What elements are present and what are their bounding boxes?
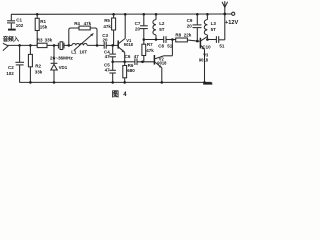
diode VD1 varactor	[51, 44, 68, 84]
svg-text:47: 47	[134, 54, 140, 59]
wire top +12V rail	[11, 13, 232, 15]
capacitor C2	[6, 44, 24, 82]
capacitor C3 (series)	[102, 33, 118, 49]
node +12V terminal	[225, 12, 238, 26]
svg-text:15k: 15k	[40, 25, 48, 30]
svg-text:图: 图	[112, 89, 119, 98]
svg-text:C10: C10	[202, 45, 211, 50]
svg-text:9018: 9018	[199, 58, 209, 63]
capacitor C7	[135, 13, 148, 40]
wire emitter tap	[113, 61, 125, 63]
svg-text:10T: 10T	[79, 50, 87, 55]
capacitor C5	[104, 61, 116, 84]
svg-text:C9: C9	[187, 18, 193, 23]
resistor R3	[37, 37, 59, 47]
svg-text:20: 20	[103, 38, 109, 43]
resistor R7	[141, 38, 154, 63]
svg-text:R7: R7	[147, 42, 153, 47]
svg-text:+12V: +12V	[225, 20, 238, 26]
caption 图4	[112, 89, 127, 98]
resistor R5	[103, 13, 115, 47]
svg-text:9018: 9018	[157, 60, 167, 65]
capacitor C9	[187, 13, 202, 42]
svg-text:R1: R1	[40, 19, 46, 24]
wire V3 collector node	[206, 38, 216, 41]
inductor L2 5T	[153, 13, 165, 41]
inductor L3 5T	[204, 13, 216, 40]
svg-text:47k: 47k	[84, 21, 92, 26]
svg-text:5T: 5T	[159, 27, 165, 32]
resistor R8	[175, 33, 199, 42]
svg-text:C7: C7	[135, 21, 141, 26]
wire collector tank line	[144, 39, 164, 41]
svg-text:C2: C2	[8, 65, 14, 70]
svg-text:9018: 9018	[124, 42, 134, 47]
inductor L1 10T adjustable	[69, 33, 104, 54]
antenna	[222, 1, 228, 40]
svg-text:C6: C6	[125, 54, 131, 59]
node 音频入 audio input terminal	[3, 35, 20, 50]
capacitor C6 (series)	[125, 54, 155, 65]
svg-text:102: 102	[6, 71, 14, 76]
svg-text:R2: R2	[35, 63, 41, 68]
svg-text:R3: R3	[37, 37, 43, 42]
transistor V3 9018	[199, 37, 209, 84]
svg-text:51: 51	[219, 43, 225, 48]
capacitor C10 (series)	[202, 36, 225, 49]
transistor V2 9018	[154, 38, 173, 83]
resistor R2	[28, 44, 42, 84]
svg-text:47k: 47k	[146, 48, 154, 53]
resistor R6	[123, 62, 136, 84]
svg-text:L1: L1	[71, 50, 77, 55]
svg-text:47: 47	[105, 54, 111, 59]
svg-text:VD1: VD1	[59, 65, 68, 70]
svg-text:5T: 5T	[211, 27, 217, 32]
svg-text:22k: 22k	[184, 33, 192, 38]
svg-text:680: 680	[127, 68, 135, 73]
svg-text:R4: R4	[74, 21, 80, 26]
svg-text:L3: L3	[211, 21, 217, 26]
transistor V1 9018	[118, 13, 133, 63]
svg-text:102: 102	[16, 23, 24, 28]
svg-text:C8: C8	[158, 44, 164, 49]
svg-text:L2: L2	[159, 21, 165, 26]
capacitor C8 (series)	[158, 36, 176, 48]
ground	[8, 29, 16, 31]
svg-text:R5: R5	[104, 18, 110, 23]
wire input line	[8, 44, 37, 46]
crystal 26~36MHz	[50, 42, 73, 61]
svg-text:R8: R8	[175, 33, 181, 38]
svg-text:47k: 47k	[103, 24, 111, 29]
svg-text:47: 47	[105, 68, 111, 73]
resistor R1	[35, 13, 48, 45]
svg-text:C1: C1	[16, 17, 22, 22]
svg-text:20: 20	[135, 27, 141, 32]
svg-text:33k: 33k	[45, 37, 53, 42]
svg-text:26~36MHz: 26~36MHz	[50, 56, 73, 61]
resistor R4 (top branch of tank box)	[68, 21, 98, 47]
svg-text:音频入: 音频入	[3, 35, 20, 43]
capacitor C1	[7, 14, 24, 28]
svg-text:33k: 33k	[35, 69, 43, 74]
capacitor C4	[104, 45, 116, 61]
wire bottom ground rail	[19, 82, 212, 83]
svg-text:20: 20	[187, 24, 193, 29]
